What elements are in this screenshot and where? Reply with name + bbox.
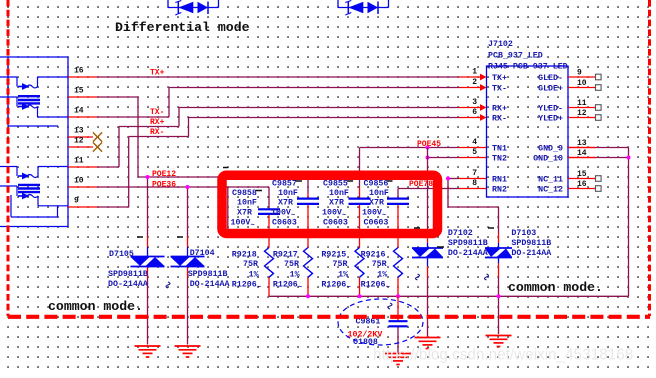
net label POE12	[152, 170, 176, 179]
svg-text:12: 12	[74, 137, 84, 146]
svg-text:TX+: TX+	[492, 74, 507, 83]
svg-text:11: 11	[74, 157, 84, 166]
wire D7105 bottom to ground	[147, 267, 149, 345]
net label POE78	[409, 180, 433, 189]
svg-text:POE12: POE12	[152, 170, 176, 179]
svg-text:7: 7	[472, 169, 477, 178]
resistor R9217	[304, 248, 313, 278]
red dashed border bottom	[8, 315, 650, 319]
svg-text:9: 9	[74, 197, 79, 206]
svg-text:1%: 1%	[377, 270, 387, 279]
svg-text:10nF: 10nF	[237, 199, 257, 208]
labels C9861 block	[353, 318, 380, 348]
wire column C9856/R9216	[397, 189, 399, 297]
svg-text:75R: 75R	[243, 260, 258, 269]
small polarity dashes	[137, 168, 494, 248]
net label TX+	[150, 69, 165, 78]
svg-text:GND_10: GND_10	[533, 155, 563, 164]
wire RX+ (pin11 to J7102 pin3)	[97, 104, 487, 167]
svg-text:POE78: POE78	[409, 180, 433, 189]
transformer pin stubs (pins 16..9)	[68, 77, 97, 207]
svg-text:16: 16	[577, 180, 587, 189]
svg-text:RN2: RN2	[492, 186, 507, 195]
labels C9856 value block	[362, 179, 389, 227]
svg-text:RX+: RX+	[150, 118, 165, 127]
svg-text:Differential mode: Differential mode	[115, 20, 250, 35]
J7102 right pin names	[533, 74, 563, 195]
svg-text:SPD9811B: SPD9811B	[108, 270, 148, 279]
svg-text:102/2KV: 102/2KV	[348, 330, 383, 340]
labels R9216 value block	[361, 251, 388, 290]
svg-text:NC_11: NC_11	[538, 176, 563, 185]
svg-text:100V: 100V	[231, 219, 251, 228]
ground (below D7104)	[175, 346, 201, 357]
svg-text:R9215: R9215	[321, 251, 346, 260]
svg-text:J7102: J7102	[488, 40, 513, 49]
capacitor C9855	[349, 199, 371, 204]
TVS diode D7105	[131, 257, 165, 267]
label: common mode (left)	[48, 299, 143, 314]
svg-text:R9216: R9216	[361, 251, 386, 260]
svg-text:10nF: 10nF	[329, 189, 349, 198]
svg-text:D7102: D7102	[448, 229, 473, 238]
labels D7105	[108, 250, 148, 289]
ground (below D7103)	[486, 336, 512, 347]
label: common mode (right)	[508, 280, 603, 295]
TVS diode D7102	[412, 248, 443, 258]
connector J7102 body	[487, 66, 569, 197]
svg-text:4: 4	[472, 138, 477, 147]
svg-text:POE45: POE45	[417, 140, 441, 149]
svg-text:X7R: X7R	[329, 199, 344, 208]
svg-text:14: 14	[74, 107, 84, 116]
svg-text:GLED-: GLED-	[538, 74, 563, 83]
J7102 reference labels	[488, 40, 568, 72]
svg-text:~: ~	[257, 284, 261, 292]
net label RX-	[150, 128, 164, 137]
resistor R9218	[265, 248, 274, 278]
svg-text:R1206: R1206	[321, 280, 346, 289]
svg-text:100V: 100V	[271, 209, 291, 218]
svg-text:D7105: D7105	[109, 250, 134, 259]
svg-text:13: 13	[74, 127, 84, 136]
svg-text:100V: 100V	[362, 209, 382, 218]
svg-text:R9218: R9218	[232, 251, 257, 260]
svg-text:14: 14	[577, 149, 587, 158]
svg-text:D7103: D7103	[511, 229, 536, 238]
net label POE36	[152, 181, 176, 190]
red dashed border right	[648, 0, 651, 316]
svg-text:75R: 75R	[372, 260, 387, 269]
svg-text:10nF: 10nF	[278, 189, 298, 198]
svg-text:R1206: R1206	[273, 280, 298, 289]
wire GND bus (to J7102 GND_9/GND_10)	[269, 148, 629, 297]
svg-text:YLED+: YLED+	[538, 115, 563, 124]
svg-text:1%: 1%	[338, 270, 348, 279]
junction RN1/RN2 tie	[446, 177, 450, 181]
svg-text:TX-: TX-	[492, 85, 507, 94]
resistor R9216	[394, 248, 403, 278]
svg-text:12: 12	[577, 109, 587, 118]
junctions TN1/TN2 tie	[426, 146, 430, 160]
capacitor C9857	[297, 199, 319, 204]
J7102 left pin names	[492, 74, 507, 195]
svg-text:X7R: X7R	[237, 209, 252, 218]
transformer pin numbers 16..9	[74, 67, 84, 206]
svg-text:PCB_937_LED: PCB_937_LED	[488, 52, 543, 61]
svg-text:R1206: R1206	[232, 280, 257, 289]
svg-text:C9857: C9857	[272, 179, 297, 188]
svg-text:DO-214AA: DO-214AA	[190, 280, 230, 289]
svg-text:75R: 75R	[284, 260, 299, 269]
no-connect X marks on pins 13 and 12	[93, 132, 102, 151]
red dashed border left	[7, 0, 10, 316]
wire C9861 column	[397, 296, 399, 352]
svg-text:15: 15	[577, 170, 587, 179]
svg-text:~: ~	[291, 212, 295, 220]
svg-text:9: 9	[577, 69, 582, 78]
svg-text:15: 15	[74, 87, 84, 96]
svg-text:TX-: TX-	[150, 108, 164, 117]
labels C9855 value block	[322, 179, 349, 227]
svg-text:5: 5	[472, 148, 477, 157]
svg-text:RX-: RX-	[492, 115, 507, 124]
svg-text:6: 6	[472, 108, 477, 117]
svg-text:C9855: C9855	[323, 179, 348, 188]
svg-text:RJ45 PCB 937 LED: RJ45 PCB 937 LED	[488, 63, 568, 72]
labels R9217 value block	[273, 251, 300, 290]
junctions on GND bus	[306, 156, 631, 299]
transformer T1 (upper magnetics)	[0, 57, 68, 227]
J7102 right pin numbers	[577, 69, 587, 190]
svg-text:2: 2	[472, 78, 477, 87]
svg-text:10: 10	[74, 177, 84, 186]
svg-text:1%: 1%	[249, 270, 259, 279]
junction on POE12 wire	[146, 175, 150, 179]
svg-text:NC_12: NC_12	[538, 186, 563, 195]
wire TX- (pin14 to J7102 pin2)	[97, 84, 487, 117]
svg-text:~: ~	[386, 284, 390, 292]
wire D7103 bottom through bus to ground	[498, 258, 500, 335]
small vertical squiggle marks	[166, 274, 489, 309]
labels C9858 value block	[231, 189, 257, 228]
wire column C9857/R9217	[307, 177, 309, 296]
svg-text:R1206: R1206	[361, 280, 386, 289]
svg-text:3: 3	[472, 98, 477, 107]
svg-text:C9858: C9858	[232, 189, 257, 198]
svg-text:16: 16	[74, 67, 84, 76]
diode pair D_top1 (back-to-back diodes)	[168, 0, 219, 15]
svg-text:75R: 75R	[333, 260, 348, 269]
diode pair D_top2 (back-to-back diodes)	[338, 0, 389, 15]
net label RX+	[150, 118, 165, 127]
svg-text:~: ~	[347, 284, 351, 292]
label 102/2KV (red)	[348, 330, 383, 340]
ground (below D7105)	[135, 346, 161, 357]
wire TX+ (pin16 to J7102 pin1)	[97, 74, 487, 81]
svg-text:8: 8	[472, 179, 477, 188]
svg-text:D7104: D7104	[190, 249, 215, 258]
svg-text:SPD9811B: SPD9811B	[511, 239, 551, 248]
svg-text:R9217: R9217	[273, 251, 298, 260]
wire POE45 net (TN1/TN2 tie, down to C9855 column)	[360, 148, 487, 297]
svg-text:100V: 100V	[322, 209, 342, 218]
resistor R9215	[355, 248, 364, 278]
svg-text:common mode.: common mode.	[508, 280, 603, 295]
dashed highlight ellipse around C9861	[338, 299, 423, 345]
svg-text:RX+: RX+	[492, 105, 507, 114]
svg-text:13: 13	[577, 139, 587, 148]
transformer T2 (lower magnetics)	[0, 167, 68, 218]
svg-text:DO-214AA: DO-214AA	[108, 280, 148, 289]
wire POE36 net (pin10 to C9858 column / D7104)	[97, 187, 269, 257]
labels D7102	[448, 229, 488, 258]
svg-text:GND_9: GND_9	[538, 145, 563, 154]
svg-text:YLED-: YLED-	[538, 105, 563, 114]
svg-text:TX+: TX+	[150, 69, 165, 78]
svg-text:~: ~	[382, 212, 386, 220]
net label POE45	[417, 140, 441, 149]
svg-text:C9856: C9856	[364, 179, 389, 188]
watermark text	[373, 347, 633, 364]
svg-text:X7R: X7R	[278, 199, 293, 208]
labels D7104	[188, 249, 230, 289]
svg-text:GLDE+: GLDE+	[538, 85, 563, 94]
svg-text:TN2: TN2	[492, 155, 507, 164]
svg-text:X7R: X7R	[369, 199, 384, 208]
TVS diode D7103	[485, 248, 512, 258]
wire RX- (pin9 to J7102 pin6)	[97, 114, 487, 207]
label: Differential mode	[115, 20, 250, 35]
svg-text:10: 10	[577, 79, 587, 88]
labels R9215 value block	[321, 251, 348, 290]
svg-text:DO-214AA: DO-214AA	[448, 249, 488, 258]
svg-text:DO-214AA: DO-214AA	[511, 249, 551, 258]
ground (below C9861)	[385, 354, 411, 365]
J7102 right pin stubs with open-square no-connects	[568, 74, 601, 191]
wire TN tie down to D7102 and ground	[427, 148, 429, 337]
svg-text:SPD9811B: SPD9811B	[188, 270, 228, 279]
tildes after 100V labels	[251, 212, 387, 230]
svg-text:SPD9811B: SPD9811B	[448, 239, 488, 248]
wire D7104 bottom to ground	[187, 267, 189, 345]
wire POE78 net (RN1/RN2 tie, to C9856 column and D7103)	[398, 179, 499, 249]
svg-text:~: ~	[251, 222, 255, 230]
svg-text:TN1: TN1	[492, 145, 507, 154]
wire column C9858/R9218	[268, 187, 270, 296]
svg-text:POE36: POE36	[152, 181, 176, 190]
labels C9857 value block	[271, 179, 298, 227]
J7102 left pin numbers	[472, 68, 477, 189]
junction on POE36 wire	[186, 185, 190, 189]
svg-text:https://blog.csdn.net/weixin_4: https://blog.csdn.net/weixin_45318168	[373, 347, 633, 364]
capacitor C9856	[387, 199, 409, 204]
labels D7103	[511, 229, 551, 258]
svg-text:~: ~	[298, 284, 302, 292]
net label TX-	[150, 108, 164, 117]
TVS diode D7104	[171, 257, 205, 267]
tildes after R1206 labels	[257, 284, 390, 292]
svg-text:11: 11	[577, 99, 587, 108]
labels R9218 value block	[232, 251, 259, 290]
svg-text:common mode.: common mode.	[48, 299, 143, 314]
svg-text:1: 1	[472, 68, 477, 77]
ground (below D7102)	[415, 338, 441, 349]
capacitor C9858	[258, 209, 280, 214]
svg-text:RN1: RN1	[492, 176, 507, 185]
svg-text:~: ~	[342, 212, 346, 220]
capacitor C9861	[389, 321, 408, 326]
red highlight box around capacitor group	[222, 175, 438, 233]
wire POE12 net (pin15 down to cap row / D7105)	[97, 97, 308, 257]
svg-text:10nF: 10nF	[369, 189, 389, 198]
svg-text:RX-: RX-	[150, 128, 164, 137]
svg-text:1%: 1%	[290, 270, 300, 279]
